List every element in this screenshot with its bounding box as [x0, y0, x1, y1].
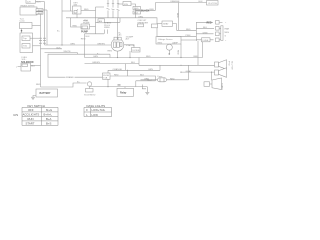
- svg-text:CLUTCH: CLUTCH: [231, 61, 233, 70]
- svg-text:LAMP: LAMP: [37, 12, 43, 15]
- svg-text:BLK: BLK: [57, 47, 62, 49]
- svg-text:BLK: BLK: [203, 27, 208, 29]
- fuel solenoid box: [21, 63, 31, 71]
- svg-text:REG: REG: [108, 51, 113, 53]
- svg-text:GRAY: GRAY: [186, 70, 193, 73]
- wire vertical x95.5: [95, 7, 97, 34]
- solenoid inner mark: [22, 64, 28, 67]
- svg-text:RED: RED: [150, 9, 155, 11]
- svg-text:REG: REG: [158, 42, 163, 44]
- seat relay stub: [124, 87, 126, 89]
- row1 plug: [216, 21, 220, 25]
- svg-text:RED: RED: [186, 29, 191, 31]
- starter plug body: [212, 78, 222, 90]
- alternator inner windings: [114, 42, 117, 48]
- wire turn connector to vertical: [32, 25, 41, 27]
- svg-text:BLK: BLK: [31, 65, 36, 67]
- bus y30.3: [177, 29, 197, 31]
- wire ignition label right: [131, 4, 136, 9]
- L bracket: [142, 85, 146, 89]
- ignition switch contact lower stubs: [108, 11, 118, 18]
- circuit breaker box: [138, 24, 144, 27]
- wire regulator right: [181, 39, 196, 41]
- svg-text:GRN: GRN: [148, 69, 153, 71]
- svg-text:PTO: PTO: [228, 61, 230, 66]
- svg-text:BRN: BRN: [176, 13, 178, 18]
- svg-text:M+G: M+G: [46, 108, 52, 112]
- chassis frame rect: [48, 54, 110, 77]
- junction dot x108: [107, 86, 108, 87]
- boxed label BLK: [133, 11, 141, 14]
- vertical x127.5: [127, 70, 129, 76]
- starter plug small rect: [204, 82, 210, 87]
- svg-text:12V: 12V: [27, 1, 31, 3]
- svg-text:LOW+TAIL: LOW+TAIL: [92, 108, 106, 112]
- wire battery top: [41, 83, 87, 87]
- fuse box bottom feed: [107, 79, 109, 86]
- svg-text:R/S: R/S: [14, 113, 19, 117]
- svg-text:GRN: GRN: [70, 44, 75, 46]
- wire PTO to vertical: [30, 37, 39, 39]
- lamp label 2: [36, 12, 43, 15]
- svg-text:PINK: PINK: [186, 35, 192, 37]
- vertical x139 lower: [138, 64, 140, 66]
- svg-text:GRN: GRN: [93, 56, 98, 58]
- wire y33.8: [85, 33, 105, 35]
- svg-text:F: F: [86, 108, 88, 112]
- wire y80.8: [136, 80, 156, 82]
- key module box: [73, 6, 82, 14]
- wire bus to pump: [71, 18, 82, 27]
- ground symbol right: [145, 92, 149, 95]
- wire vertical x44.5: [44, 2, 46, 45]
- svg-text:PUMP: PUMP: [81, 30, 88, 33]
- wire vertical x63 top: [61, 0, 63, 45]
- wire solenoid to vertical: [31, 64, 41, 66]
- svg-text:BLK: BLK: [134, 12, 139, 14]
- svg-text:Voltage Device: Voltage Device: [158, 38, 173, 41]
- fuse box feed: [107, 70, 109, 73]
- regulator circle: [166, 44, 172, 50]
- interlock module box top-left: [26, 0, 36, 3]
- junction dot turn conn: [21, 30, 23, 32]
- wire vertical x47: [46, 10, 48, 45]
- ignition switch contact verticals: [108, 0, 118, 8]
- key module inner marks: [75, 10, 79, 13]
- wire y76: [110, 76, 156, 81]
- bus wire y17.8: [66, 18, 157, 37]
- key switch table grid: [22, 107, 58, 125]
- svg-text:BLACK: BLACK: [141, 10, 150, 13]
- wire y86.6: [90, 86, 147, 88]
- svg-text:RED: RED: [114, 75, 119, 77]
- alternator circle: [111, 39, 124, 52]
- svg-text:NES: NES: [225, 32, 230, 34]
- svg-text:BATTERY: BATTERY: [40, 92, 51, 95]
- wire vertical x40.5 long to battery: [40, 14, 42, 87]
- PTO inner label 2: [22, 44, 30, 49]
- svg-text:FRAME: FRAME: [66, 76, 74, 79]
- junction dot x62: [61, 44, 62, 45]
- wire key module bottom: [76, 14, 78, 18]
- svg-text:B+S: B+S: [46, 122, 51, 126]
- junction dots right: [180, 65, 181, 66]
- boxed label RED: [133, 7, 141, 10]
- svg-text:DIODE: DIODE: [133, 50, 140, 52]
- svg-text:Fuse: Fuse: [158, 76, 164, 78]
- svg-text:BLK: BLK: [131, 62, 136, 64]
- bus y72.1: [181, 71, 216, 73]
- svg-text:RED: RED: [73, 26, 78, 28]
- connector circle: [87, 82, 91, 86]
- horn 2: [215, 70, 219, 75]
- svg-text:RED: RED: [177, 50, 179, 55]
- battery ground wire: [33, 96, 36, 98]
- wire turn connector down: [21, 29, 23, 34]
- svg-text:Relay: Relay: [120, 92, 127, 95]
- svg-text:RED: RED: [81, 39, 86, 41]
- turn connector box: [20, 23, 33, 29]
- svg-text:CLUTCH: CLUTCH: [208, 3, 217, 5]
- svg-text:RED: RED: [134, 8, 139, 10]
- wire vertical x202.5: [202, 41, 204, 58]
- key box inner dot: [74, 11, 77, 14]
- wire from interlock to vertical: [36, 1, 45, 3]
- svg-text:B+A+L: B+A+L: [44, 113, 53, 117]
- wire lamp to vertical: [43, 9, 47, 11]
- svg-text:BLK: BLK: [199, 1, 204, 3]
- headlight switch box: [20, 7, 37, 15]
- svg-text:RED: RED: [146, 56, 151, 58]
- wire PTO lower to vertical: [33, 45, 41, 47]
- junction dot x211.5: [211, 72, 212, 73]
- vertical x198: [197, 41, 199, 65]
- wire vertical x178.5: [178, 3, 180, 31]
- ground hook right: [146, 87, 148, 92]
- vertical x130: [129, 51, 131, 58]
- connector bracket: [221, 26, 223, 41]
- wire vertical x84.5: [84, 34, 86, 58]
- starter plug link: [210, 83, 213, 85]
- svg-text:RED: RED: [170, 78, 175, 80]
- svg-text:SEAT: SEAT: [163, 22, 169, 25]
- wire y79.8 harness: [141, 79, 189, 81]
- svg-text:RED: RED: [84, 9, 89, 11]
- vertical x160: [159, 65, 161, 70]
- svg-text:B+A: B+A: [46, 117, 51, 121]
- row4 boxed label: [202, 38, 211, 42]
- wire vertical x135.5: [135, 9, 137, 18]
- seat switch right wire: [173, 24, 177, 31]
- vertical x135.8: [135, 81, 137, 87]
- svg-text:SOLENOID: SOLENOID: [84, 95, 96, 97]
- svg-text:ORN: ORN: [138, 16, 143, 18]
- alternator top terminals: [114, 37, 117, 40]
- regulator ground stem: [168, 51, 170, 54]
- small box under switch: [98, 19, 105, 23]
- starter plug feed: [211, 72, 213, 80]
- contact ticks: [107, 4, 120, 11]
- bus y63.6: [85, 63, 140, 65]
- row2 plug: [216, 27, 220, 31]
- wire vertical x181: [180, 44, 182, 58]
- bus y36.3: [157, 35, 196, 37]
- dash lights grid: [84, 107, 112, 116]
- svg-text:WIRE: WIRE: [104, 27, 110, 29]
- svg-text:LAMP: LAMP: [37, 9, 43, 12]
- ignition label box: [123, 2, 131, 6]
- connector box: [86, 89, 94, 93]
- svg-text:OFF: OFF: [28, 108, 34, 112]
- connector pin ticks: [39, 38, 46, 43]
- seat relay box: [117, 88, 134, 96]
- vertical x188.5: [188, 65, 190, 80]
- svg-text:START: START: [26, 122, 35, 126]
- horn 1: [215, 62, 219, 67]
- ground dot: [169, 53, 171, 55]
- bus y70.3: [108, 69, 160, 71]
- wire stub y8: [96, 6, 105, 8]
- wire alternator right: [124, 45, 134, 48]
- PTO switch box: [20, 33, 33, 53]
- svg-text:START: START: [221, 83, 224, 91]
- top right boxed label: [207, 1, 219, 6]
- vertical x141: [138, 58, 140, 64]
- wire pump right: [90, 26, 96, 28]
- wire vertical x196.3: [195, 22, 197, 41]
- svg-text:WHITE: WHITE: [64, 51, 72, 53]
- fuel pump box: [81, 24, 90, 29]
- svg-text:FUSE: FUSE: [203, 40, 209, 42]
- wire vertical x70.5 top: [70, 0, 72, 11]
- svg-text:RED: RED: [36, 84, 41, 86]
- wire key module right: [81, 10, 96, 12]
- svg-text:AC: AC: [119, 34, 122, 37]
- pins ticks: [118, 84, 121, 85]
- bus y52.6: [45, 53, 78, 55]
- svg-text:Seat: Seat: [147, 79, 152, 82]
- lower bus y22.3: [96, 18, 121, 23]
- bus y65.3: [139, 64, 216, 66]
- alternator feed vertical: [117, 18, 119, 39]
- connector row 1 wire: [196, 21, 213, 23]
- svg-text:GREEN: GREEN: [97, 44, 105, 46]
- svg-text:LAMP: LAMP: [172, 41, 178, 44]
- svg-text:RED: RED: [207, 21, 212, 24]
- small box right of alternator: [132, 48, 141, 53]
- svg-text:ORANGE: ORANGE: [113, 68, 123, 71]
- svg-text:GRN: GRN: [203, 33, 208, 35]
- junction dots bus y57.5: [117, 57, 118, 58]
- svg-text:BLK: BLK: [140, 75, 145, 77]
- lamp label 1: [36, 9, 43, 12]
- row3 plug: [216, 32, 220, 36]
- bus y48.8: [41, 48, 63, 50]
- vertical x125.5: [125, 64, 127, 71]
- svg-text:ACC/LIGHTS: ACC/LIGHTS: [23, 113, 40, 117]
- svg-text:RUN: RUN: [28, 117, 34, 121]
- svg-text:STATOR: STATOR: [126, 44, 135, 47]
- connector row 4 wire: [196, 39, 213, 41]
- svg-text:LOW: LOW: [92, 113, 99, 117]
- ground symbol battery: [31, 97, 35, 100]
- inline fuse symbol: [158, 78, 167, 82]
- battery box: [36, 89, 58, 97]
- fuel pump inner: [82, 26, 88, 29]
- voltage regulator box: [156, 37, 181, 45]
- alternator bottom stub: [117, 51, 119, 57]
- connector row 3 wire: [196, 33, 213, 35]
- fuse box: [103, 73, 111, 79]
- svg-text:BLK: BLK: [86, 36, 91, 38]
- connector stem: [89, 86, 91, 88]
- spark plug stubs: [105, 30, 108, 34]
- seat switch box: [162, 21, 173, 26]
- seat switch left wire: [157, 23, 162, 25]
- svg-text:ALT: ALT: [126, 38, 131, 41]
- wire y10.3: [136, 9, 156, 11]
- svg-text:AM: AM: [99, 20, 102, 23]
- wire to ignition label: [118, 3, 123, 5]
- wire into key module: [62, 10, 73, 12]
- row4 plug: [216, 38, 220, 42]
- bus y57.5: [85, 57, 203, 59]
- PTO inner label 1: [22, 36, 30, 41]
- svg-text:IGN: IGN: [124, 4, 128, 6]
- bus y45: [45, 44, 112, 46]
- connector row 2 wire: [196, 27, 214, 29]
- svg-text:GREEN: GREEN: [92, 62, 100, 64]
- top right wire y2.5: [156, 2, 207, 4]
- solenoid left tick: [18, 66, 22, 68]
- small box on seat feed: [152, 24, 158, 28]
- junction dot x127.5: [127, 70, 128, 71]
- wire vertical x155.5: [155, 3, 157, 11]
- svg-text:15A: 15A: [103, 76, 107, 79]
- svg-text:HAR: HAR: [225, 28, 230, 31]
